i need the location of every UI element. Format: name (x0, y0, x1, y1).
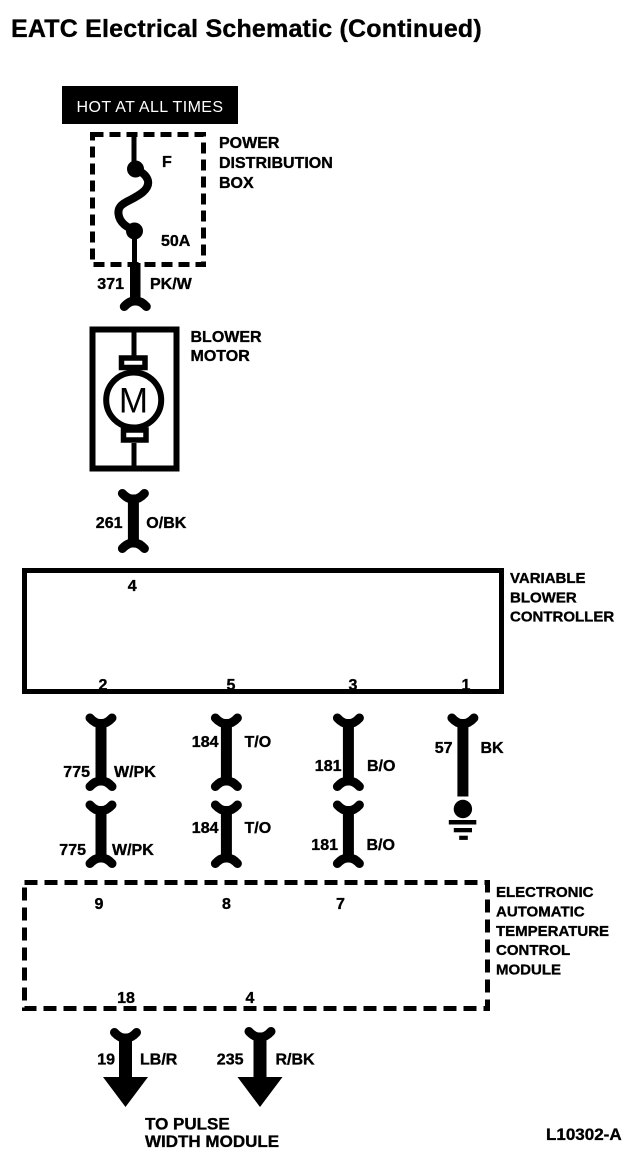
connector: circuit 57 BK to ground (452, 718, 474, 797)
svg-text:L10302-A: L10302-A (546, 1125, 622, 1144)
svg-text:261: 261 (96, 515, 123, 532)
svg-text:4: 4 (128, 578, 137, 595)
connector: circuit 775 W/PK (upper) (90, 718, 112, 787)
svg-text:EATC Electrical Schematic (Con: EATC Electrical Schematic (Continued) (11, 15, 482, 43)
svg-text:T/O: T/O (245, 820, 272, 837)
connector: circuit 261 O/BK (122, 494, 144, 549)
svg-text:HOT AT ALL TIMES: HOT AT ALL TIMES (77, 99, 224, 116)
svg-text:8: 8 (222, 896, 231, 913)
electronic automatic temperature control module box (dashed) (25, 883, 488, 1009)
svg-text:1: 1 (462, 677, 471, 694)
svg-text:B/O: B/O (367, 758, 395, 775)
svg-text:181: 181 (311, 837, 338, 854)
svg-text:T/O: T/O (245, 734, 272, 751)
svg-text:LB/R: LB/R (140, 1052, 178, 1069)
variable blower controller box (25, 571, 502, 692)
svg-text:235: 235 (217, 1052, 244, 1069)
svg-text:775: 775 (59, 842, 86, 859)
svg-text:W/PK: W/PK (114, 764, 156, 781)
svg-text:57: 57 (435, 740, 453, 757)
svg-text:5: 5 (227, 677, 236, 694)
connector: circuit 775 W/PK (lower) (90, 805, 112, 864)
svg-text:371: 371 (97, 276, 124, 293)
blower motor M1 (93, 330, 177, 469)
wire: feed into fuse (132, 132, 137, 164)
svg-text:R/BK: R/BK (276, 1052, 316, 1069)
svg-text:184: 184 (192, 734, 219, 751)
svg-text:181: 181 (315, 758, 342, 775)
svg-text:3: 3 (349, 677, 358, 694)
connector: circuit 181 B/O (lower) (337, 805, 359, 864)
connector: circuit 184 T/O (upper) (215, 718, 237, 787)
wire: fuse output (132, 236, 137, 267)
svg-text:O/BK: O/BK (146, 515, 186, 532)
svg-text:184: 184 (192, 820, 219, 837)
svg-text:9: 9 (95, 896, 104, 913)
svg-text:M: M (119, 382, 148, 421)
fuse F 50A (118, 161, 148, 240)
svg-text:50A: 50A (161, 233, 191, 250)
svg-text:F: F (162, 154, 172, 171)
svg-text:7: 7 (336, 896, 345, 913)
connector: circuit 181 B/O (upper) (337, 718, 359, 787)
svg-text:2: 2 (99, 677, 108, 694)
wire: circuit 235 R/BK to pulse width module (238, 1032, 283, 1108)
wire: circuit 19 LB/R to pulse width module (103, 1033, 148, 1108)
power distribution box (dashed enclosure) (93, 135, 204, 265)
connector: circuit 184 T/O (lower) (215, 805, 237, 864)
svg-text:19: 19 (97, 1052, 115, 1069)
svg-text:4: 4 (246, 990, 255, 1007)
node: HOT AT ALL TIMES feed box (62, 86, 238, 124)
svg-text:775: 775 (63, 764, 90, 781)
svg-text:W/PK: W/PK (112, 842, 154, 859)
ground G1 (449, 800, 477, 840)
svg-text:BK: BK (481, 740, 505, 757)
svg-text:B/O: B/O (367, 837, 395, 854)
svg-text:18: 18 (117, 990, 135, 1007)
connector: circuit 371 PK/W (124, 263, 146, 307)
svg-text:PK/W: PK/W (150, 276, 193, 293)
